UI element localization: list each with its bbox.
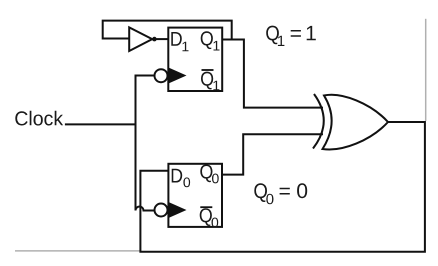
label Q1-bar [202,69,214,71]
wire: Q0 output to XOR lower input [222,134,323,174]
wire: clock branch to FF1 bubble [136,75,155,77]
wire: clock hop over feedback and into FF0 bubble [136,207,155,211]
clock edge triangle FF1 [169,68,187,83]
label Q1 [201,31,213,49]
XOR gate U4 body [323,95,389,150]
label Q0 [200,164,212,182]
inverter U1 [129,27,152,51]
wire: XOR output right, down, bottom rail, up to D0 input [140,122,425,252]
label D0 [172,169,183,183]
label Clock [15,111,63,126]
gray page border bottom-left [15,250,140,252]
junction dot at inverter output [152,37,157,42]
wire: inverter output to D1 input [157,38,169,40]
wire: clock horizontal [65,123,137,125]
clock bubble FF1 [155,69,168,82]
label Q0-bar [200,206,212,208]
flip-flop U3 box (D0) [168,164,222,227]
wire: inverter feedback loop from Q1 net [103,21,232,40]
wire: clock trunk vertical [135,75,137,211]
annotation Q1 = 1 [266,26,279,45]
XOR gate U4 input arc [313,94,324,149]
annotation Q0 = 0 [254,183,267,202]
flip-flop U2 box (D1) [168,28,222,91]
gray page border right-top [425,19,427,121]
wire: Q1 output to XOR upper input [222,40,323,108]
clock bubble FF0 [155,204,168,217]
label D1 [171,32,182,46]
clock edge triangle FF0 [169,202,187,217]
